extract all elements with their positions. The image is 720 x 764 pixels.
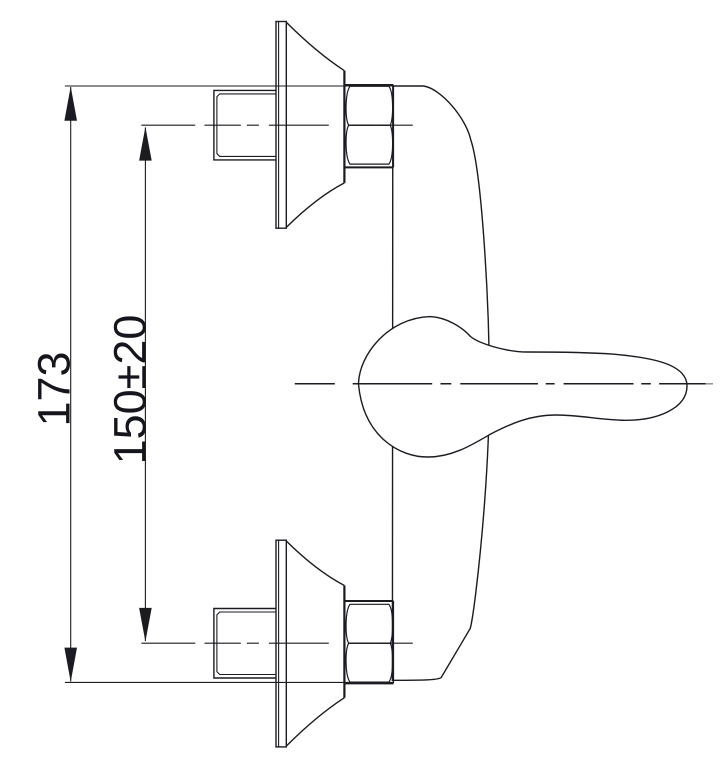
handle centerline faint tail	[706, 383, 714, 385]
dimension line 150±20	[144, 128, 146, 642]
centerline top assembly	[141, 124, 413, 126]
top mounting assembly	[65, 22, 413, 229]
threaded stub thread root	[217, 94, 276, 156]
escutcheon cone bottom edge	[286, 183, 344, 228]
hex nut upper facet	[346, 86, 393, 125]
escutcheon cone vertical edge	[343, 71, 345, 183]
arrowhead 150 bottom	[139, 608, 152, 642]
extension line top (173)	[65, 85, 393, 87]
hex nut outline	[344, 85, 393, 167]
arrowhead 173 bottom	[64, 648, 77, 682]
dimension line 173	[70, 87, 72, 682]
svg-text:173: 173	[29, 351, 80, 426]
hex nut lower facet	[346, 125, 393, 164]
faucet body outline	[392, 86, 489, 680]
hex nut right edge	[392, 85, 394, 167]
flange inner line	[278, 22, 280, 229]
svg-text:150±20: 150±20	[105, 315, 156, 465]
arrowhead 150 top	[139, 127, 152, 161]
bottom mounting assembly (mirror of top)	[65, 540, 413, 747]
escutcheon cone top edge	[286, 22, 344, 70]
arrowhead 173 top	[64, 87, 77, 121]
wall flange plate	[276, 22, 286, 229]
lever handle	[359, 317, 688, 457]
handle centerline	[295, 383, 706, 385]
threaded stub outer	[214, 90, 276, 159]
